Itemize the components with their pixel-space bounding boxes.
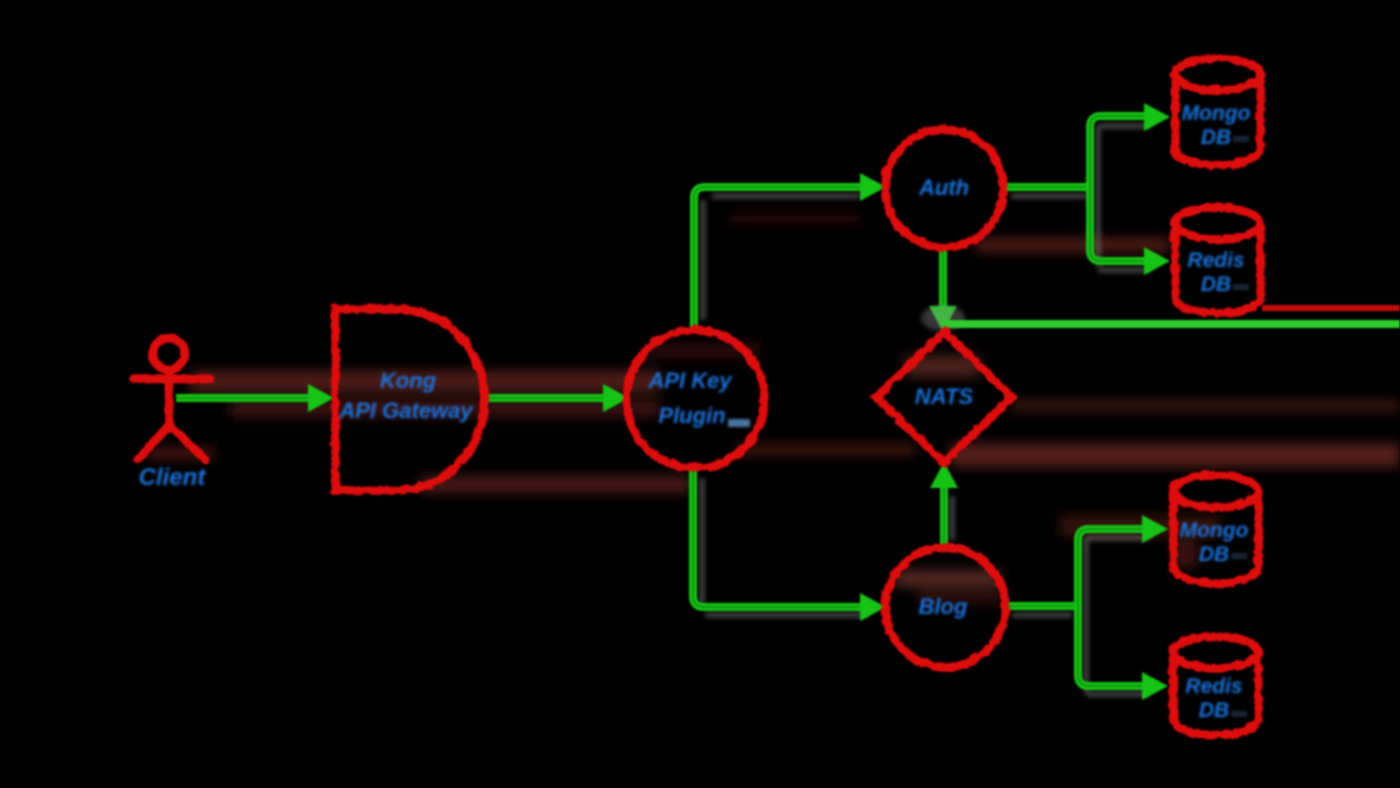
label Blog <box>919 594 968 619</box>
svg-text:NATS: NATS <box>915 384 974 409</box>
svg-text:DB: DB <box>1201 273 1231 296</box>
gray shadows of green wires <box>702 126 1152 694</box>
wire red line to right edge <box>1262 305 1400 311</box>
wire Blog to NATS <box>930 462 958 547</box>
label Mongo DB (auth) <box>1182 102 1251 149</box>
svg-text:Auth: Auth <box>918 175 969 200</box>
label Client <box>139 464 207 491</box>
node Auth <box>884 128 1002 246</box>
svg-text:DB: DB <box>1201 126 1231 149</box>
svg-text:DB: DB <box>1199 699 1229 722</box>
node NATS diamond <box>875 331 1011 461</box>
wire Auth to NATS <box>929 247 957 332</box>
label API Key Plugin <box>647 368 733 428</box>
wire API Key Plugin to Blog <box>693 467 886 621</box>
wire Blog to databases split <box>1004 515 1168 700</box>
svg-text:Mongo: Mongo <box>1182 102 1251 125</box>
label Mongo DB (blog) <box>1180 519 1249 566</box>
label Redis DB (blog) <box>1185 675 1242 722</box>
svg-text:DB: DB <box>1199 543 1229 566</box>
svg-text:Redis: Redis <box>1187 249 1244 272</box>
label Redis DB (auth) <box>1187 249 1244 296</box>
svg-text:Plugin: Plugin <box>658 403 725 428</box>
node Kong API Gateway <box>334 308 483 489</box>
actor Client <box>133 337 209 459</box>
svg-text:API Key: API Key <box>647 368 733 393</box>
junction ghost <box>921 305 965 331</box>
wire API Key Plugin to Auth <box>694 173 886 329</box>
svg-text:Blog: Blog <box>919 594 968 619</box>
svg-text:Client: Client <box>139 464 207 491</box>
node API Key Plugin <box>625 329 763 467</box>
artifact smudge bands <box>148 214 1400 602</box>
wire Kong to API Key Plugin <box>483 384 629 412</box>
svg-text:Redis: Redis <box>1185 675 1242 698</box>
wire NATS junction to right edge <box>943 320 1400 328</box>
artifact dash after Plugin <box>728 136 1249 717</box>
wire Client to Kong <box>176 384 334 412</box>
svg-text:Kong: Kong <box>380 368 437 393</box>
database Mongo DB (blog) <box>1172 474 1257 582</box>
wire Auth to databases split <box>1002 103 1170 275</box>
database Redis DB (auth) <box>1174 206 1259 312</box>
label NATS <box>915 384 974 409</box>
node Blog <box>884 546 1004 666</box>
svg-text:API Gateway: API Gateway <box>338 398 474 423</box>
database Mongo DB (auth) <box>1174 57 1259 164</box>
label Kong API Gateway <box>338 368 474 423</box>
database Redis DB (blog) <box>1172 635 1257 734</box>
svg-text:Mongo: Mongo <box>1180 519 1249 542</box>
label Auth <box>918 175 969 200</box>
